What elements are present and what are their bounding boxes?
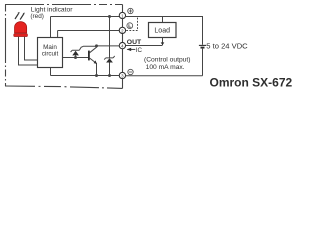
wire LED leads	[25, 37, 38, 60]
wire load top feed	[162, 17, 164, 23]
wire external 0V return	[126, 75, 203, 77]
load box	[149, 23, 177, 38]
sensor enclosure dashed border bottom	[5, 86, 123, 88]
wire external OUT	[126, 45, 163, 47]
svg-text:(Control output): (Control output)	[144, 57, 190, 64]
svg-text:OUT: OUT	[127, 39, 142, 46]
sensor enclosure dashed border top	[5, 4, 123, 6]
svg-text:100 mA max.: 100 mA max.	[146, 64, 185, 71]
LED light ray arrows	[15, 12, 25, 20]
svg-text:(red): (red)	[30, 13, 44, 20]
terminal 2	[119, 27, 125, 33]
wire terminal 2 feed	[58, 31, 120, 38]
sensor enclosure border right (through terminals)	[122, 5, 124, 89]
node zener D2 anode junction	[108, 74, 111, 77]
svg-text:Omron SX-672: Omron SX-672	[210, 76, 293, 90]
sensor enclosure dashed border left	[5, 5, 7, 87]
svg-text:5 to 24 VDC: 5 to 24 VDC	[206, 42, 248, 51]
battery supply symbol	[199, 45, 206, 75]
load current arrowhead	[161, 42, 165, 45]
zener diode D1 (collector-base clamp)	[71, 48, 81, 58]
main circuit box U1	[38, 38, 63, 68]
wire main circuit top feed	[50, 17, 52, 38]
terminal 4	[119, 42, 125, 48]
zener diode D2 (supply protection)	[104, 17, 115, 76]
wire base line	[62, 57, 89, 59]
svg-text:IC: IC	[136, 47, 143, 54]
LED indicator lamp (red)	[14, 22, 28, 37]
transistor Q1 output NPN	[89, 46, 97, 76]
wire bottom 0V rail	[51, 68, 120, 76]
svg-text:Load: Load	[154, 27, 170, 34]
node zener D1 anode junction	[74, 56, 77, 59]
svg-text:circuit: circuit	[42, 51, 59, 58]
L symbol at terminal 2	[127, 23, 133, 29]
plus symbol at terminal 1	[128, 8, 133, 13]
node emitter junction	[95, 74, 98, 77]
wire external +V to battery	[126, 17, 203, 45]
wire top +V rail	[51, 16, 120, 18]
node junction on +V rail	[108, 15, 111, 18]
node collector junction	[95, 44, 98, 47]
dotted link terminal 2 to +V	[127, 18, 138, 31]
terminal 1	[119, 12, 125, 18]
minus symbol at terminal 3	[128, 69, 133, 74]
current arrow IC	[127, 48, 131, 50]
wire OUT line	[81, 46, 120, 48]
terminal 3	[119, 72, 125, 78]
wire load bottom to OUT	[162, 38, 164, 46]
